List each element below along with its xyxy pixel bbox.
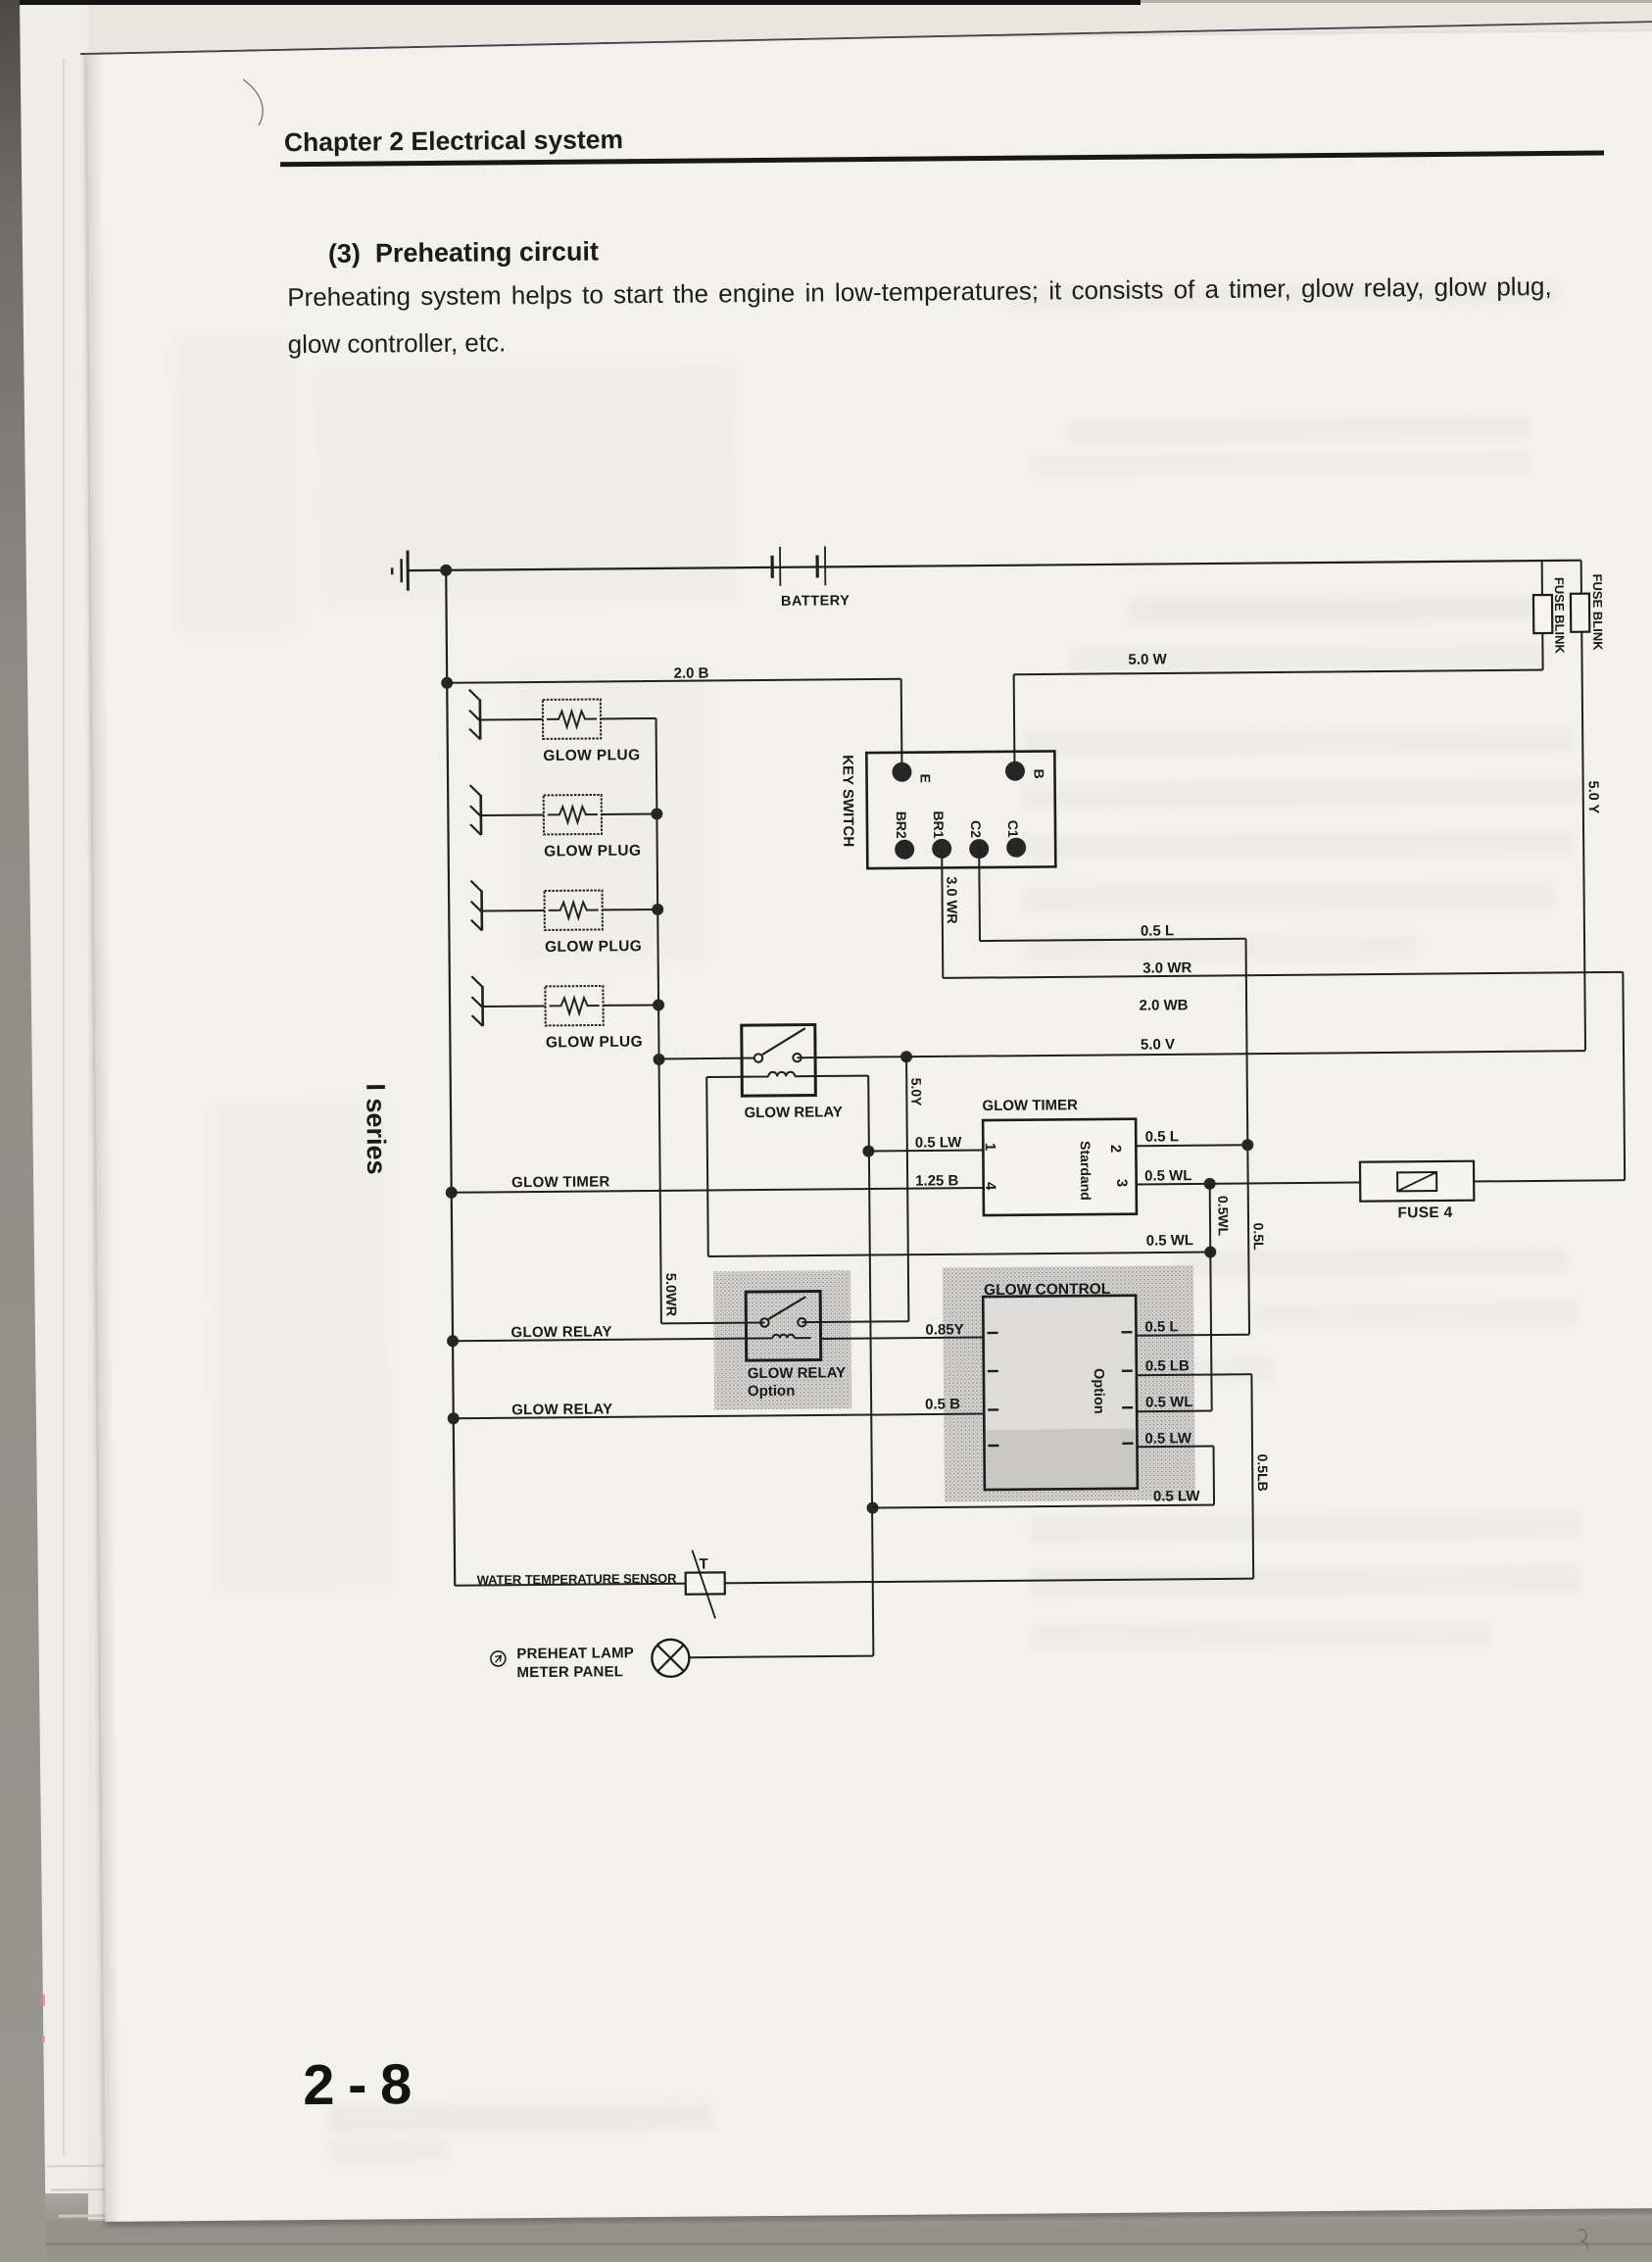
glow control stippled background bbox=[985, 1298, 1136, 1488]
junction: bus / plug 2 bbox=[651, 808, 662, 819]
svg-text:0.5WL: 0.5WL bbox=[1215, 1196, 1231, 1237]
wire 0.5LW to glow timer pin 1 bbox=[868, 1151, 983, 1152]
wire: BR1 down bbox=[942, 849, 943, 978]
wire: preheat lamp lead bbox=[689, 1656, 873, 1658]
pink specks on left margin bbox=[41, 1994, 45, 2006]
wire 0.5LB vertical down bbox=[1251, 1374, 1253, 1578]
svg-text:3.0 WR: 3.0 WR bbox=[943, 876, 958, 924]
relay K2 contacts bbox=[760, 1318, 768, 1326]
svg-text:METER PANEL: METER PANEL bbox=[516, 1663, 623, 1681]
wire 5.0WR to option relay contact bbox=[661, 1322, 764, 1325]
wire 0.5LW bottom horizontal bbox=[873, 1505, 1214, 1508]
glow timer U2 box bbox=[983, 1119, 1137, 1215]
wire: option relay contact to 5.0Y bbox=[802, 1320, 908, 1323]
junction: trunk / glow timer 1.25B wire bbox=[446, 1187, 458, 1199]
wire 3.0WR horizontal bbox=[943, 972, 1623, 978]
svg-text:BR1: BR1 bbox=[931, 811, 947, 838]
svg-text:5.0 Y: 5.0 Y bbox=[1585, 781, 1601, 814]
wire: water temperature sensor line bbox=[455, 1579, 1253, 1586]
glow plug GP3 bbox=[470, 879, 602, 930]
page number 2 - 8 bbox=[303, 2051, 413, 2118]
svg-text:GLOW RELAY: GLOW RELAY bbox=[744, 1104, 842, 1121]
junction: trunk / glow relay coil wire bbox=[447, 1335, 459, 1347]
svg-text:1.25 B: 1.25 B bbox=[915, 1172, 959, 1189]
svg-text:0.5 L: 0.5 L bbox=[1144, 1318, 1178, 1335]
wire: relay coil left lead bbox=[706, 1076, 742, 1078]
scanner background top band bbox=[0, 0, 1652, 57]
wire 0.5WL vertical bbox=[1210, 1184, 1212, 1411]
relay K1 coil bbox=[742, 1072, 815, 1077]
glow plug GP1 bbox=[469, 688, 601, 739]
wire 5.0Y: top rail right corner down bbox=[1581, 561, 1585, 1051]
black scanner strip top bbox=[20, 0, 1141, 5]
svg-text:GLOW TIMER: GLOW TIMER bbox=[982, 1097, 1078, 1114]
wire: 3.0WR right corner down to fuse 4 line bbox=[1623, 972, 1625, 1180]
junction: trunk / glow relay 0.5B wire bbox=[448, 1412, 460, 1424]
header: Chapter 2 Electrical system bbox=[284, 124, 623, 158]
preheat lamp DS1 bbox=[652, 1640, 689, 1677]
fuse FUSE BLINK 1 bbox=[1533, 595, 1552, 633]
svg-text:0.85Y: 0.85Y bbox=[925, 1321, 963, 1338]
svg-text:GLOW PLUG: GLOW PLUG bbox=[543, 747, 640, 764]
svg-text:0.5 WL: 0.5 WL bbox=[1145, 1394, 1192, 1410]
wire: coil left down bbox=[706, 1077, 708, 1256]
wire 0.5L: glow control out bbox=[1137, 1335, 1249, 1336]
stray hair mark top bbox=[235, 74, 284, 133]
bottom scanner band bbox=[0, 2193, 1652, 2262]
section heading bbox=[328, 236, 599, 269]
terminal C2 bbox=[969, 839, 989, 859]
key switch U1 box bbox=[866, 751, 1055, 868]
fuse FUSE 4 outer box bbox=[1360, 1161, 1474, 1202]
svg-text:WATER TEMPERATURE SENSOR: WATER TEMPERATURE SENSOR bbox=[477, 1571, 678, 1588]
junction: coil-right wire / 0.5LW bottom bbox=[867, 1502, 879, 1514]
page stack step lines bottom-left bbox=[47, 2165, 112, 2168]
svg-text:GLOW RELAY: GLOW RELAY bbox=[748, 1364, 846, 1382]
wire: battery positive top rail bbox=[408, 561, 1580, 570]
wire: ground trunk (left bus) bbox=[446, 570, 455, 1586]
svg-text:0.5LB: 0.5LB bbox=[1255, 1454, 1271, 1492]
svg-text:GLOW RELAY: GLOW RELAY bbox=[511, 1401, 612, 1418]
meter panel symbol bbox=[491, 1651, 506, 1666]
svg-text:I series: I series bbox=[361, 1083, 391, 1174]
junction: 0.5WL / vertical bbox=[1204, 1178, 1216, 1190]
fuse FUSE BLINK 2 bbox=[1571, 594, 1589, 632]
svg-text:0.5 LW: 0.5 LW bbox=[1153, 1488, 1201, 1504]
svg-text:C1: C1 bbox=[1005, 820, 1021, 838]
svg-text:KEY SWITCH: KEY SWITCH bbox=[839, 755, 856, 847]
wire: bus to glow relay contact bbox=[659, 1057, 754, 1060]
svg-text:0.5 B: 0.5 B bbox=[925, 1396, 960, 1412]
wire: drop to terminal E bbox=[900, 679, 903, 772]
terminal B bbox=[1005, 762, 1025, 781]
svg-text:GLOW RELAY: GLOW RELAY bbox=[510, 1323, 611, 1341]
svg-text:T: T bbox=[699, 1556, 707, 1573]
junction: bus / plug 3 bbox=[652, 904, 663, 915]
svg-text:4: 4 bbox=[982, 1182, 998, 1191]
wire 0.5LB out bbox=[1137, 1374, 1251, 1375]
svg-text:B: B bbox=[1031, 768, 1046, 778]
svg-text:0.5 L: 0.5 L bbox=[1141, 922, 1174, 939]
svg-text:3.0 WR: 3.0 WR bbox=[1142, 959, 1191, 976]
wire 0.5WL out bbox=[1137, 1410, 1211, 1413]
relay K1 contacts bbox=[754, 1054, 762, 1061]
svg-text:GLOW PLUG: GLOW PLUG bbox=[544, 843, 641, 861]
svg-text:0.5 LW: 0.5 LW bbox=[1144, 1430, 1192, 1447]
glow plug GP2 bbox=[470, 784, 602, 835]
wire: C2 down bbox=[978, 849, 981, 941]
svg-text:FUSE BLINK: FUSE BLINK bbox=[1590, 573, 1606, 651]
glow control U3 box bbox=[983, 1296, 1138, 1490]
wire 0.85Y: option coil to glow control pin 1 bbox=[821, 1338, 984, 1339]
wire 0.5B: trunk to glow control bbox=[454, 1414, 984, 1419]
wire: relay coil right lead bbox=[815, 1075, 868, 1077]
svg-text:0.5 LB: 0.5 LB bbox=[1145, 1357, 1190, 1374]
wire 0.5LW out bbox=[1138, 1446, 1214, 1449]
svg-text:2.0 WB: 2.0 WB bbox=[1140, 997, 1189, 1013]
wire 5.0Y vertical bbox=[906, 1057, 908, 1321]
svg-text:FUSE BLINK: FUSE BLINK bbox=[1552, 577, 1568, 655]
page left edge shading bbox=[86, 45, 121, 2222]
svg-text:5.0Y: 5.0Y bbox=[908, 1078, 924, 1107]
terminal C1 bbox=[1006, 838, 1026, 858]
svg-text:Option: Option bbox=[748, 1383, 795, 1400]
body text bbox=[287, 271, 1600, 314]
svg-text:PREHEAT LAMP: PREHEAT LAMP bbox=[516, 1645, 634, 1662]
wire 0.5L: timer pin 2 out bbox=[1137, 1144, 1247, 1147]
wire 2.0B: trunk to key switch E bbox=[447, 679, 900, 683]
svg-text:5.0 W: 5.0 W bbox=[1128, 651, 1167, 667]
svg-text:Stardand: Stardand bbox=[1078, 1141, 1094, 1201]
wire: drop to terminal B bbox=[1013, 674, 1016, 770]
wire 0.5WL lower horizontal bbox=[708, 1253, 1210, 1256]
relay K1 contact arm bbox=[762, 1028, 805, 1055]
terminal BR2 bbox=[895, 840, 914, 860]
fuse FUSE 4 element bbox=[1397, 1172, 1436, 1191]
svg-text:2: 2 bbox=[1107, 1145, 1124, 1153]
wire: glow plug bus / 5.0WR down bbox=[656, 718, 661, 1323]
tiny squiggle bottom right bbox=[1572, 2227, 1597, 2252]
wire: top rail to FUSE BLINK 1 bbox=[1541, 561, 1544, 669]
water temperature sensor RT1 bbox=[686, 1572, 725, 1594]
terminal BR1 bbox=[932, 839, 951, 859]
svg-text:0.5 WL: 0.5 WL bbox=[1146, 1232, 1193, 1249]
svg-text:5.0 V: 5.0 V bbox=[1141, 1036, 1175, 1053]
glow control left pin ticks (pins 1-4) bbox=[988, 1332, 998, 1334]
stippled gray panels bbox=[713, 1270, 851, 1409]
svg-text:2.0 B: 2.0 B bbox=[674, 664, 709, 681]
svg-text:3: 3 bbox=[1113, 1179, 1130, 1187]
svg-text:E: E bbox=[918, 773, 934, 782]
svg-text:0.5 WL: 0.5 WL bbox=[1144, 1167, 1191, 1184]
svg-text:0.5 L: 0.5 L bbox=[1145, 1128, 1179, 1145]
junction: top rail / trunk bbox=[440, 565, 452, 576]
relay K1 GLOW RELAY box bbox=[742, 1025, 816, 1097]
svg-text:GLOW PLUG: GLOW PLUG bbox=[546, 1034, 643, 1052]
wire 1.25B: trunk to glow timer pin 4 bbox=[452, 1188, 984, 1193]
svg-text:GLOW TIMER: GLOW TIMER bbox=[511, 1173, 610, 1191]
relay K2 GLOW RELAY Option box bbox=[746, 1292, 821, 1361]
terminal E bbox=[892, 762, 911, 782]
glow plug GP4 bbox=[471, 975, 603, 1026]
junction: bus / plug 4 bbox=[653, 999, 664, 1010]
svg-text:Option: Option bbox=[1091, 1368, 1106, 1414]
wire: glow plug 3 to bus bbox=[603, 909, 657, 910]
wire 0.5WL: timer pin 3 through FUSE 4 bbox=[1137, 1180, 1625, 1184]
glow control right pin ticks bbox=[1122, 1331, 1133, 1333]
svg-text:0.5 LW: 0.5 LW bbox=[915, 1134, 963, 1151]
svg-text:5.0WR: 5.0WR bbox=[662, 1273, 678, 1317]
junction: 0.5WL lower / vertical bbox=[1204, 1246, 1216, 1257]
junction: coil-right wire / 0.5LW bbox=[862, 1146, 874, 1157]
svg-text:C2: C2 bbox=[968, 820, 984, 838]
junction: 0.5L / right vertical bbox=[1241, 1139, 1253, 1151]
wire 0.5L horizontal bbox=[980, 939, 1245, 941]
relay K2 coil bbox=[747, 1334, 811, 1338]
svg-text:FUSE 4: FUSE 4 bbox=[1397, 1205, 1452, 1221]
page top edge dark line bbox=[80, 19, 1652, 55]
svg-text:GLOW PLUG: GLOW PLUG bbox=[545, 938, 642, 956]
scanner left gray margin bbox=[0, 0, 49, 2262]
header rule bbox=[280, 150, 1604, 167]
battery bbox=[772, 546, 825, 585]
wire: glow plug 1 to bus bbox=[601, 717, 656, 719]
svg-text:1: 1 bbox=[982, 1143, 998, 1151]
svg-text:BR2: BR2 bbox=[894, 811, 909, 839]
relay K2 contact arm bbox=[768, 1297, 805, 1319]
junction: bus / glow relay wire bbox=[654, 1054, 665, 1065]
wire 5.0V: relay output to right fuse branch bbox=[798, 1051, 1585, 1057]
ground (battery negative chassis ground) bbox=[392, 551, 408, 591]
svg-text:0.5L: 0.5L bbox=[1251, 1223, 1267, 1252]
wire 0.5L vertical right bbox=[1246, 939, 1250, 1334]
junction: trunk / 2.0B wire bbox=[441, 677, 453, 689]
wire 0.5LW corner down bbox=[1213, 1447, 1216, 1505]
wire: trunk to option relay coil bbox=[453, 1339, 746, 1342]
junction: 5.0V / 5.0Y vertical bbox=[900, 1051, 912, 1062]
wire: glow plug 4 to bus bbox=[604, 1004, 658, 1006]
wire 5.0W: fuse blink to key switch B bbox=[1014, 670, 1543, 675]
svg-text:BATTERY: BATTERY bbox=[781, 593, 850, 610]
wire: coil right down to preheat lamp bbox=[868, 1076, 873, 1656]
under-page white strip (left of page) bbox=[20, 5, 88, 2193]
wire: glow plug 2 to bus bbox=[602, 812, 656, 814]
